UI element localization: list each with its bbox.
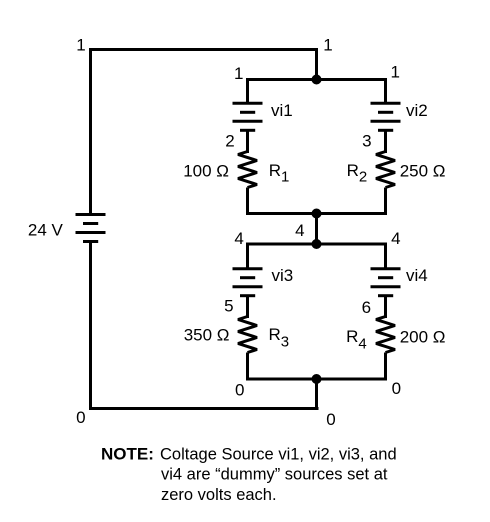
svg-text:R2: R2	[347, 161, 368, 186]
wire: vi3 top stub	[246, 243, 249, 269]
resistor R3	[238, 317, 257, 353]
wire: mid bus (R1/R2 bottoms)	[246, 212, 387, 215]
svg-text:1: 1	[323, 35, 332, 54]
svg-text:4: 4	[295, 221, 304, 240]
junction dot node 4	[312, 239, 322, 249]
svg-text:1: 1	[234, 64, 243, 83]
svg-text:zero volts each.: zero volts each.	[161, 486, 277, 504]
svg-text:6: 6	[362, 298, 371, 317]
resistor R1	[238, 152, 257, 188]
svg-text:vi1: vi1	[271, 101, 293, 120]
wire: vi3 to R3 (node 5)	[246, 296, 249, 318]
wire: top rail node 1 horizontal	[89, 48, 318, 51]
wire: node 4 bus (vi3 top to vi4 top)	[246, 243, 387, 246]
wire: connector mid bus to node 4 bus	[315, 214, 318, 245]
svg-text:vi3: vi3	[272, 266, 294, 285]
svg-text:0: 0	[326, 410, 335, 429]
svg-text:4: 4	[391, 229, 400, 248]
svg-text:1: 1	[390, 63, 399, 82]
junction dot node 0	[312, 374, 322, 384]
svg-text:350 Ω: 350 Ω	[184, 326, 230, 345]
wire: node 0 upper bus (R3/R4 bottoms)	[246, 378, 387, 381]
svg-text:vi4: vi4	[406, 266, 428, 285]
svg-text:R4: R4	[346, 327, 367, 353]
battery 24 V	[76, 215, 106, 242]
svg-text:NOTE:: NOTE:	[101, 444, 154, 463]
junction dot node 1	[312, 75, 322, 85]
wire: vertical drop from top rail to node 1 bus	[315, 48, 318, 80]
svg-text:vi2: vi2	[406, 101, 428, 120]
voltage source vi1	[233, 103, 263, 130]
junction dot mid bus	[312, 209, 322, 219]
svg-text:0: 0	[392, 379, 401, 398]
wire: vi2 to R2 (node 3)	[384, 130, 387, 153]
svg-text:vi4 are “dummy” sources set at: vi4 are “dummy” sources set at	[161, 466, 388, 484]
svg-text:250 Ω: 250 Ω	[400, 162, 446, 181]
svg-text:5: 5	[224, 297, 233, 316]
wire: vi2 top stub	[384, 78, 387, 103]
svg-text:1: 1	[76, 36, 85, 55]
wire: vi1 top stub	[246, 78, 249, 103]
svg-text:4: 4	[234, 229, 243, 248]
wire: R1 bottom to mid bus	[246, 188, 249, 216]
wire: vi4 top stub	[384, 243, 387, 269]
wire: left rail top (node 1, from top-left corner down to 24V battery)	[89, 48, 92, 215]
svg-text:0: 0	[76, 408, 85, 427]
wire: R2 bottom to mid bus	[384, 188, 387, 216]
resistor R4	[376, 317, 395, 353]
voltage source vi2	[371, 103, 401, 130]
wire: bottom rail node 0	[89, 407, 319, 410]
svg-text:100 Ω: 100 Ω	[183, 161, 229, 180]
voltage source vi4	[371, 269, 401, 296]
svg-text:Coltage Source vi1, vi2, vi3,: Coltage Source vi1, vi2, vi3, and	[160, 445, 397, 463]
svg-text:3: 3	[362, 132, 371, 151]
wire: node 1 bus (vi1 top to vi2 top)	[246, 78, 387, 81]
svg-text:R1: R1	[269, 161, 290, 185]
svg-text:0: 0	[235, 381, 244, 400]
wire: R3 bottom to node 0 bus	[246, 353, 249, 381]
svg-text:200 Ω: 200 Ω	[400, 328, 446, 347]
wire: R4 bottom to node 0 bus	[384, 353, 387, 381]
svg-text:R3: R3	[269, 325, 290, 350]
wire: connector node 0 bus to bottom rail	[315, 379, 318, 410]
voltage source vi3	[233, 269, 263, 296]
svg-text:2: 2	[225, 132, 234, 151]
wire: vi4 to R4 (node 6)	[384, 296, 387, 318]
wire: vi1 to R1 (node 2)	[246, 130, 249, 153]
wire: left rail bottom (24V battery to bottom rail)	[89, 242, 92, 411]
svg-text:24 V: 24 V	[28, 221, 64, 240]
resistor R2	[376, 152, 395, 188]
